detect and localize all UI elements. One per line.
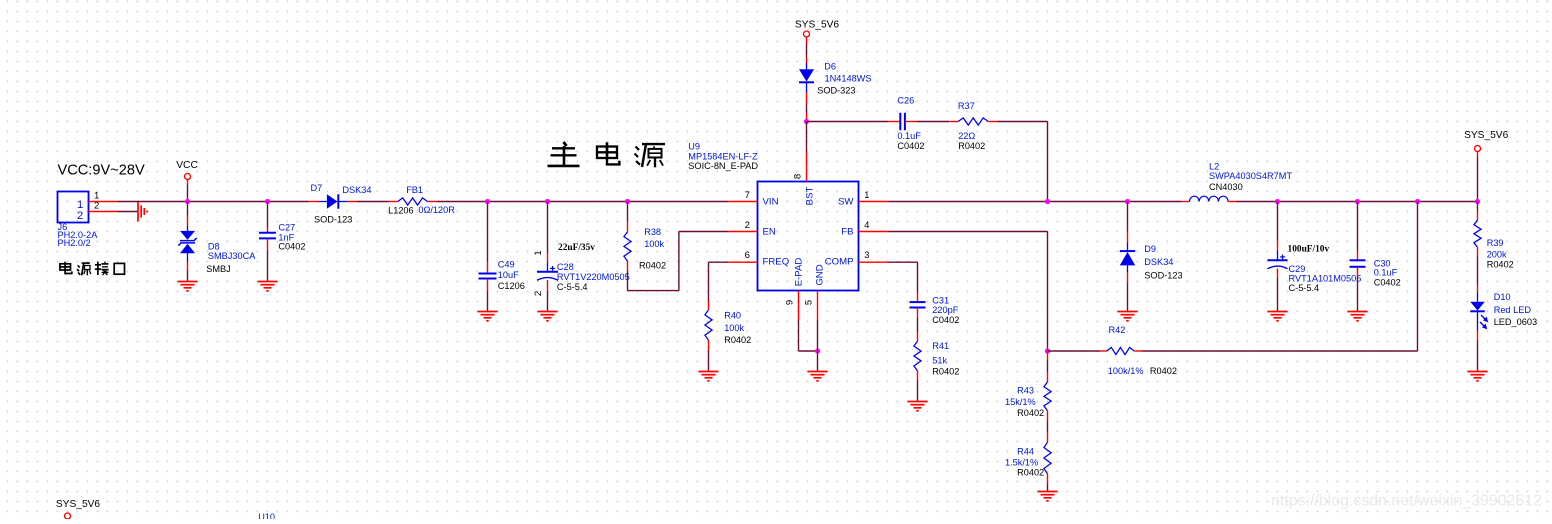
wire R42 to output tap: [1142, 350, 1418, 352]
wire C49 branch: [487, 202, 489, 263]
svg-text:SYS_5V6: SYS_5V6: [1464, 130, 1509, 141]
svg-text:C29: C29: [1289, 264, 1306, 274]
svg-text:6: 6: [745, 250, 750, 261]
svg-text:2: 2: [745, 220, 750, 231]
junction C49 node: [485, 199, 490, 204]
resistor R37: [958, 118, 988, 125]
junction R37 drop: [1045, 199, 1050, 204]
svg-text:C-5-5.4: C-5-5.4: [1289, 283, 1320, 293]
svg-text:R44: R44: [1017, 447, 1034, 457]
junction FB divider: [1045, 348, 1050, 353]
svg-text:LED_0603: LED_0603: [1494, 317, 1537, 327]
svg-text:1N4148WS: 1N4148WS: [825, 73, 872, 83]
wire GND pin to ground: [817, 321, 819, 372]
resistor R39: [1477, 202, 1479, 211]
resistor R44: [1047, 421, 1049, 433]
svg-text:R0402: R0402: [932, 367, 959, 377]
svg-text:R0402: R0402: [1150, 366, 1177, 376]
ground below C29: [1268, 312, 1288, 321]
pin 6 FREQ: [728, 261, 758, 263]
svg-text:3: 3: [864, 250, 869, 260]
wire COMP to C31: [889, 261, 918, 263]
junction C27 node: [265, 199, 270, 204]
wire D6 to BST node: [806, 93, 808, 104]
svg-text:22Ω: 22Ω: [958, 131, 975, 141]
svg-text:E-PAD: E-PAD: [794, 258, 805, 287]
svg-text:100k/1%: 100k/1%: [1108, 366, 1144, 376]
svg-text:1.5k/1%: 1.5k/1%: [1005, 458, 1038, 468]
svg-text:0.1uF: 0.1uF: [1374, 267, 1398, 277]
svg-text:SMBJ30CA: SMBJ30CA: [208, 251, 256, 261]
svg-text:VCC: VCC: [176, 160, 198, 171]
svg-text:R0402: R0402: [1487, 260, 1514, 270]
svg-text:5: 5: [804, 300, 815, 305]
wire C27 to ground: [267, 238, 269, 250]
ground below GND pin: [808, 372, 828, 381]
svg-text:220pF: 220pF: [932, 305, 958, 315]
capacitor C30: [1357, 202, 1359, 251]
power port VCC: [185, 174, 191, 180]
ferrite bead FB1: [389, 201, 398, 203]
wire D8 to ground: [187, 262, 189, 271]
junction VCC node: [185, 199, 190, 204]
junction D9 node: [1125, 199, 1130, 204]
resistor R41: [914, 341, 921, 371]
svg-text:R0402: R0402: [958, 141, 985, 151]
diode D9: [1127, 202, 1129, 232]
svg-text:100k: 100k: [644, 239, 664, 249]
wire D8 branch: [187, 202, 189, 216]
junction R38 node: [625, 199, 630, 204]
label text dian-yuan-jie-kou (power interface): [60, 262, 125, 276]
title text zhu-dian-yuan (main power): [548, 142, 666, 167]
pin 7 VIN: [728, 201, 758, 203]
diode D6: [806, 45, 808, 58]
junction EPAD-GND: [815, 348, 820, 353]
svg-text:10uF: 10uF: [498, 270, 519, 280]
wire C29 to ground: [1277, 269, 1279, 278]
svg-text:4: 4: [864, 220, 869, 230]
pin 9 E-PAD: [798, 291, 800, 321]
wire R37 to SW rail: [988, 121, 997, 123]
wire R38 to EN: [627, 271, 629, 291]
LED D10: [1477, 257, 1479, 286]
svg-text:RVT1V220M0505: RVT1V220M0505: [557, 272, 630, 282]
wire SW rail: [889, 201, 1182, 203]
pin 5 GND: [817, 291, 819, 321]
svg-text:FB1: FB1: [406, 185, 423, 195]
pin 8 BST: [806, 152, 808, 182]
pin 3 COMP: [859, 261, 889, 263]
svg-text:C27: C27: [278, 223, 295, 233]
ground below D10: [1468, 372, 1488, 381]
wire output rail: [1237, 201, 1478, 203]
resistor R38: [627, 202, 629, 222]
svg-text:D7: D7: [311, 183, 323, 193]
svg-text:51k: 51k: [932, 356, 947, 366]
wire D10 to ground: [1477, 331, 1479, 341]
svg-text:RVT1A101M0505: RVT1A101M0505: [1289, 274, 1362, 284]
inductor L2: [1182, 201, 1190, 203]
svg-text:VIN: VIN: [763, 196, 779, 207]
ground below C49: [478, 312, 498, 321]
wire C28 branch: [547, 202, 549, 254]
capacitor C28 polarized: [547, 262, 549, 271]
svg-text:CN4030: CN4030: [1209, 182, 1243, 192]
svg-text:R0402: R0402: [639, 261, 666, 271]
svg-text:D9: D9: [1144, 244, 1156, 254]
svg-text:R42: R42: [1109, 325, 1126, 335]
TVS diode D8: [187, 226, 189, 232]
resistor R43: [1047, 351, 1049, 361]
wire pin2 to ground: [118, 211, 139, 213]
pin 4 FB: [859, 231, 889, 233]
svg-text:R39: R39: [1487, 238, 1504, 248]
svg-text:R38: R38: [644, 227, 661, 237]
junction FB tap node: [1415, 199, 1420, 204]
svg-text:2: 2: [94, 200, 99, 211]
ground below D9: [1118, 312, 1138, 321]
svg-text:D6: D6: [824, 62, 836, 72]
wire E-PAD to junction: [798, 321, 800, 352]
svg-text:R0402: R0402: [724, 335, 751, 345]
op-amp U9 MP1584EN body: [758, 182, 859, 291]
svg-text:9: 9: [785, 300, 796, 305]
pin 1 SW: [859, 201, 889, 203]
svg-text:GND: GND: [815, 264, 826, 285]
svg-text:D10: D10: [1494, 292, 1511, 302]
svg-text:nttps://blog.csdn.net/weixin_3: nttps://blog.csdn.net/weixin_39902512: [1271, 493, 1542, 510]
wire C27 branch: [267, 202, 269, 228]
svg-text:100k: 100k: [724, 323, 744, 333]
wire FREQ to R40: [709, 261, 728, 263]
wire FB tap down: [1417, 202, 1419, 352]
wire R41 to ground: [917, 371, 919, 381]
svg-text:C28: C28: [557, 262, 574, 272]
svg-text:U9: U9: [688, 141, 700, 151]
svg-text:L1206: L1206: [388, 206, 414, 216]
svg-text:VCC:9V~28V: VCC:9V~28V: [58, 163, 145, 179]
svg-text:0.1uF: 0.1uF: [897, 131, 921, 141]
svg-text:PH2.0/2: PH2.0/2: [58, 238, 91, 248]
ground at J6 pin 2: [138, 202, 147, 222]
diode D7: [309, 201, 319, 203]
svg-text:EN: EN: [763, 226, 776, 237]
wire C30 to ground: [1357, 267, 1359, 277]
wire D7 to FB1: [357, 201, 389, 203]
svg-text:DSK34: DSK34: [342, 185, 371, 195]
svg-text:U10: U10: [258, 512, 275, 519]
svg-text:FB: FB: [841, 226, 853, 237]
svg-text:8: 8: [793, 174, 804, 179]
ground below R44: [1038, 492, 1058, 501]
svg-text:7: 7: [745, 190, 750, 201]
svg-text:SOD-123: SOD-123: [314, 215, 352, 225]
svg-text:D8: D8: [208, 242, 220, 252]
svg-text:FREQ: FREQ: [763, 257, 790, 268]
junction C30 node: [1355, 199, 1360, 204]
ground below C27: [258, 282, 278, 291]
svg-text:C31: C31: [932, 295, 949, 305]
svg-text:200k: 200k: [1487, 250, 1507, 260]
svg-text:SW: SW: [838, 196, 854, 207]
svg-text:R0402: R0402: [1017, 468, 1044, 478]
svg-text:R37: R37: [958, 101, 975, 111]
svg-text:SOD-123: SOD-123: [1144, 271, 1182, 281]
wire C28 to ground: [547, 280, 549, 291]
pin 2 EN: [728, 231, 758, 233]
svg-text:C49: C49: [498, 259, 515, 269]
capacitor C26: [900, 113, 905, 131]
svg-text:15k/1%: 15k/1%: [1005, 397, 1036, 407]
ground below D8: [178, 282, 198, 291]
svg-text:R40: R40: [724, 311, 741, 321]
svg-text:SOIC-8N_E-PAD: SOIC-8N_E-PAD: [688, 161, 758, 171]
junction C29 node: [1275, 199, 1280, 204]
svg-text:1: 1: [533, 250, 544, 255]
svg-text:SYS_5V6: SYS_5V6: [56, 499, 101, 510]
ground below C28: [538, 312, 558, 321]
capacitor C27: [259, 233, 276, 239]
svg-text:COMP: COMP: [825, 257, 854, 268]
svg-text:100uF/10v: 100uF/10v: [1288, 244, 1330, 254]
wire BST node to IC pin 8: [806, 122, 808, 152]
wire C31 to R41: [917, 308, 919, 318]
svg-text:SMBJ: SMBJ: [206, 264, 231, 274]
svg-text:C1206: C1206: [498, 281, 525, 291]
svg-text:BST: BST: [805, 187, 816, 206]
svg-text:SWPA4030S4R7MT: SWPA4030S4R7MT: [1209, 171, 1292, 181]
svg-text:R41: R41: [932, 341, 949, 351]
connector J6: [58, 192, 89, 223]
wire FB1 to VIN: [438, 201, 728, 203]
svg-text:C0402: C0402: [897, 141, 924, 151]
svg-text:SOD-323: SOD-323: [817, 86, 855, 96]
svg-text:C26: C26: [897, 95, 914, 105]
junction C28 node: [545, 199, 550, 204]
ground below C30: [1348, 312, 1368, 321]
svg-text:SYS_5V6: SYS_5V6: [795, 19, 840, 30]
svg-text:C0402: C0402: [278, 242, 305, 252]
svg-text:C0402: C0402: [932, 315, 959, 325]
svg-text:2: 2: [533, 291, 544, 296]
svg-text:Red LED: Red LED: [1494, 305, 1532, 315]
wire FB to divider: [889, 231, 1048, 233]
wire C26 to R37: [905, 121, 917, 123]
wire BST node to C26: [807, 121, 889, 123]
svg-text:2: 2: [77, 210, 83, 222]
capacitor C29 polarized: [1277, 202, 1279, 241]
ground below R41: [908, 402, 928, 411]
junction BST node: [804, 119, 809, 124]
svg-text:1: 1: [864, 190, 869, 200]
svg-text:DSK34: DSK34: [1144, 257, 1173, 267]
svg-text:L2: L2: [1209, 161, 1219, 171]
svg-text:R0402: R0402: [1017, 408, 1044, 418]
svg-text:C0402: C0402: [1374, 277, 1401, 287]
wire C49 to ground: [487, 279, 489, 291]
svg-text:C-5-5.4: C-5-5.4: [557, 282, 588, 292]
wire VCC rail J6 to D7: [118, 201, 309, 203]
resistor R42: [1048, 350, 1100, 352]
resistor R40: [708, 301, 710, 310]
svg-text:R43: R43: [1017, 386, 1034, 396]
capacitor C49: [479, 274, 497, 279]
capacitor C31: [917, 293, 919, 303]
svg-text:0Ω/120R: 0Ω/120R: [418, 205, 455, 215]
svg-text:22uF/35v: 22uF/35v: [558, 243, 595, 253]
junction output end: [1475, 199, 1480, 204]
ground below R40: [699, 372, 719, 381]
